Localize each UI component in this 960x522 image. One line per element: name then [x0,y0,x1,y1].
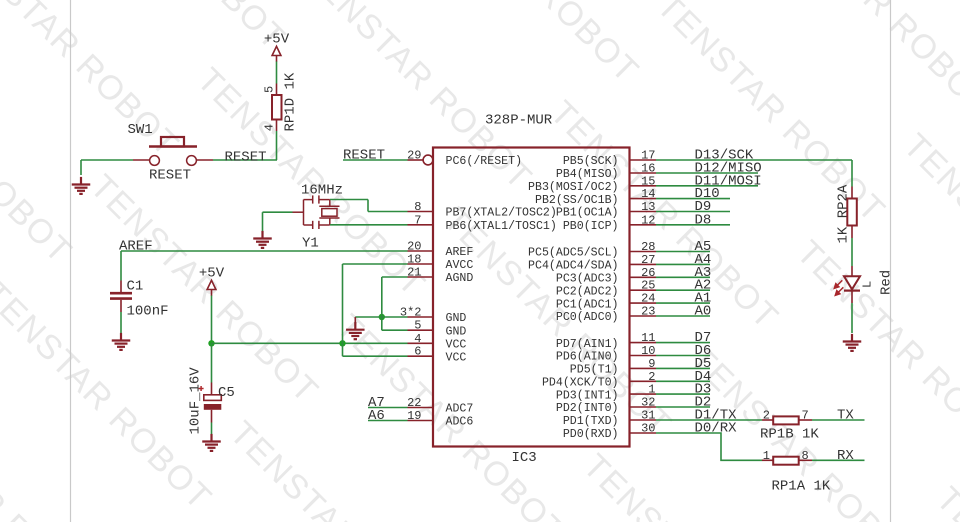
ground [202,434,221,451]
wire [656,367,710,369]
svg-text:PB7(XTAL2/TOSC2): PB7(XTAL2/TOSC2) [446,207,557,220]
svg-text:16MHz: 16MHz [301,183,343,199]
svg-text:PB4(MISO): PB4(MISO) [556,168,619,181]
svg-text:PB3(MOSI/OC2): PB3(MOSI/OC2) [528,181,618,194]
svg-text:28: 28 [641,240,655,254]
frame right border [890,0,892,522]
svg-text:10uF_16V: 10uF_16V [188,367,204,435]
IC3 pin 4 VCC [408,332,467,352]
svg-text:PC2(ADC2): PC2(ADC2) [556,285,619,298]
svg-text:ADC6: ADC6 [446,416,474,429]
ground [253,231,272,248]
+5V supply [199,266,225,296]
svg-text:ADC7: ADC7 [446,403,474,416]
wire [211,423,213,438]
svg-text:A6: A6 [368,408,385,424]
svg-text:1: 1 [648,383,655,397]
wire [656,355,710,357]
wire [656,315,710,317]
svg-text:7: 7 [802,409,809,423]
svg-text:PB6(XTAL1/TOSC1): PB6(XTAL1/TOSC1) [446,220,557,233]
svg-text:GND: GND [446,325,467,338]
wire [656,198,730,200]
svg-text:D8: D8 [695,212,712,228]
wire [120,251,122,281]
wire A7 net [368,407,408,409]
IC3 pin 21 AGND [407,266,473,286]
wire [656,211,730,213]
wire D0/RX net [656,433,762,460]
svg-text:29: 29 [407,149,421,163]
svg-text:Red: Red [879,270,895,295]
svg-text:19: 19 [407,409,421,423]
IC3 pin 23 PC0(ADC0) [556,305,656,325]
IC3 pin 31 PD1(TXD) [563,409,656,429]
switch SW1 [128,122,214,184]
svg-text:1K RP2A: 1K RP2A [835,184,851,243]
svg-text:PC3(ADC3): PC3(ADC3) [556,273,619,286]
wire [120,312,122,333]
svg-text:100nF: 100nF [127,304,169,320]
svg-text:20: 20 [407,240,421,254]
svg-text:RP1A 1K: RP1A 1K [772,479,831,495]
ground [72,177,91,194]
svg-text:RP1B 1K: RP1B 1K [760,427,819,443]
svg-text:6: 6 [414,345,421,359]
svg-text:PD6(AIN0): PD6(AIN0) [556,351,619,364]
wire [330,199,368,201]
svg-text:IC3: IC3 [512,450,537,466]
svg-text:17: 17 [641,149,655,163]
svg-text:11: 11 [641,331,655,345]
wire [80,160,82,175]
wire [330,224,408,226]
svg-text:24: 24 [641,292,655,306]
crystal/resonator Y1 16MHz [293,183,344,252]
svg-text:RX: RX [837,448,854,464]
ground [346,322,365,339]
svg-text:RESET: RESET [149,168,191,184]
IC3 pin 11 PD7(AIN1) [556,331,656,351]
wire [368,211,408,213]
svg-text:1: 1 [763,449,770,463]
resistor RP1B 1K [760,409,819,443]
svg-text:PC6(/RESET): PC6(/RESET) [446,155,523,168]
wire [211,343,213,382]
IC3 pin 15 PB3(MOSI/OC2) [528,174,656,194]
svg-text:D0/RX: D0/RX [695,421,738,437]
svg-text:TENSTAR ROBOT: TENSTAR ROBOT [649,0,892,230]
svg-text:RESET: RESET [225,150,267,166]
svg-text:27: 27 [641,253,655,267]
svg-text:22: 22 [407,396,421,410]
IC3 pin 7 PB6(XTAL1/TOSC1) [408,213,557,233]
svg-text:5: 5 [263,86,277,93]
wire [656,342,710,344]
svg-text:18: 18 [407,253,421,267]
svg-text:Y1: Y1 [302,236,319,252]
svg-text:8: 8 [802,449,809,463]
IC3 pin 1 PD3(INT1) [556,383,656,403]
svg-text:RP1D 1K: RP1D 1K [283,72,299,131]
wire [851,238,853,266]
svg-text:9: 9 [648,357,655,371]
wire [276,62,278,84]
svg-text:AVCC: AVCC [446,259,474,272]
svg-text:32: 32 [641,396,655,410]
wire +5V net [211,296,213,344]
wire RX net [812,459,865,461]
wire D1/TX net [656,419,762,421]
wire [656,276,710,278]
IC3 pin 10 PD6(AIN0) [556,344,656,364]
wire AREF net [121,250,408,252]
svg-text:21: 21 [407,266,421,280]
wire [656,251,710,253]
svg-text:TENSTAR ROBOT: TENSTAR ROBOT [929,480,960,522]
svg-text:PB5(SCK): PB5(SCK) [563,155,619,168]
wire [656,159,852,161]
resistor RP2A 1K [835,184,857,243]
svg-text:RESET: RESET [343,148,385,164]
wire RESET net [276,131,278,160]
wire [656,263,710,265]
svg-text:PC0(ADC0): PC0(ADC0) [556,311,619,324]
IC3 pin 2 PD4(XCK/T0) [542,370,656,390]
junction [379,314,385,320]
wire [262,212,264,231]
frame left border [70,0,72,522]
svg-text:SW1: SW1 [128,122,153,138]
svg-text:PD3(INT1): PD3(INT1) [556,389,619,402]
svg-text:5: 5 [414,319,421,333]
wire RESET net [81,159,133,161]
ground [843,334,862,351]
svg-text:PB0(ICP): PB0(ICP) [563,220,619,233]
svg-text:VCC: VCC [446,339,467,352]
IC3 pin 12 PB0(ICP) [563,213,656,233]
svg-text:TENSTAR ROBOT: TENSTAR ROBOT [0,274,219,517]
svg-text:328P-MUR: 328P-MUR [485,113,553,129]
IC3 pin 25 PC2(ADC2) [556,279,656,299]
svg-text:30: 30 [641,422,655,436]
+5V supply [264,32,290,62]
wire GND [355,316,407,318]
IC3 pin 9 PD5(T1) [570,357,656,377]
svg-text:PD2(INT0): PD2(INT0) [556,402,619,415]
svg-text:4: 4 [414,332,421,346]
wire RESET net [213,159,277,161]
svg-text:GND: GND [446,312,467,325]
svg-text:PB2(SS/OC1B): PB2(SS/OC1B) [535,194,619,207]
svg-text:PB1(OC1A): PB1(OC1A) [556,207,619,220]
capacitor C1 100nF [110,279,169,320]
capacitor C5 10uF 16V polarized [188,367,235,435]
IC3 pin 13 PB1(OC1A) [556,200,656,220]
wire [342,264,344,356]
svg-text:14: 14 [641,187,655,201]
svg-text:AGND: AGND [446,272,474,285]
junction [339,340,345,346]
IC3 pin 6 VCC [408,345,467,365]
svg-text:AREF: AREF [119,239,153,255]
svg-text:7: 7 [414,213,421,227]
svg-text:TX: TX [837,408,854,424]
svg-text:PD1(TXD): PD1(TXD) [563,415,619,428]
svg-text:TENSTAR ROBOT: TENSTAR ROBOT [0,0,186,164]
svg-text:C1: C1 [127,279,144,295]
resistor RP1A 1K [762,449,831,495]
wire [656,393,710,395]
svg-text:31: 31 [641,409,655,423]
wire [367,200,369,212]
wire VCC net [212,342,408,344]
svg-text:13: 13 [641,200,655,214]
wire [656,380,710,382]
wire [381,277,383,330]
svg-text:PD7(AIN1): PD7(AIN1) [556,338,619,351]
wire [656,289,710,291]
wire RESET net [343,159,408,161]
wire A6 net [368,420,408,422]
LED L Red [834,266,894,303]
IC3 pin 32 PD2(INT0) [556,396,656,416]
IC3 pin 29 PC6(/RESET) [407,149,522,169]
svg-text:TENSTAR ROBOT: TENSTAR ROBOT [83,168,326,411]
svg-text:PD4(XCK/T0): PD4(XCK/T0) [542,377,619,390]
IC3 pin 26 PC3(ADC3) [556,266,656,286]
IC3 pin 16 PB4(MISO) [556,162,656,182]
svg-text:A0: A0 [695,304,712,320]
svg-text:26: 26 [641,266,655,280]
wire [851,303,853,333]
svg-text:AREF: AREF [446,246,474,259]
junction [208,340,214,346]
IC3 pin 20 AREF [407,240,473,260]
IC3 pin 8 PB7(XTAL2/TOSC2) [408,200,557,220]
wire [656,302,710,304]
IC3 pin 17 PB5(SCK) [563,149,656,169]
IC3 pin 5 GND [408,319,467,339]
svg-text:PC5(ADC5/SCL): PC5(ADC5/SCL) [528,247,618,260]
svg-text:PC4(ADC4/SDA): PC4(ADC4/SDA) [528,260,618,273]
wire [851,160,853,187]
wire [263,211,293,213]
wire TX net [812,419,865,421]
svg-text:PD0(RXD): PD0(RXD) [563,428,619,441]
IC3 pin 24 PC1(ADC1) [556,292,656,312]
svg-text:10: 10 [641,344,655,358]
IC3 pin 3*2 GND [400,306,467,326]
wire [656,172,758,174]
svg-text:PC1(ADC1): PC1(ADC1) [556,298,619,311]
resistor RP1D 1K [263,72,299,131]
ground [354,317,356,329]
svg-text:PD5(T1): PD5(T1) [570,364,619,377]
IC3 pin 30 PD0(RXD) [563,422,656,442]
wire [656,185,758,187]
wire [656,406,710,408]
svg-text:25: 25 [641,279,655,293]
svg-text:4: 4 [263,124,277,131]
svg-text:2: 2 [763,409,770,423]
IC IC3 ATmega328P body [433,148,630,447]
wire VCC [343,355,408,357]
svg-text:C5: C5 [218,385,235,401]
ground [112,333,131,350]
IC3 pin 27 PC4(ADC4/SDA) [528,253,656,273]
IC3 pin 22 ADC7 [407,396,473,416]
IC3 pin 19 ADC6 [407,409,473,429]
svg-text:8: 8 [414,200,421,214]
wire AGND [382,276,408,278]
wire GND [382,329,408,331]
svg-text:L: L [861,281,875,288]
svg-text:23: 23 [641,305,655,319]
IC3 pin 28 PC5(ADC5/SCL) [528,240,656,260]
wire AVCC [343,263,408,265]
svg-text:VCC: VCC [446,351,467,364]
IC3 pin 18 AVCC [407,253,473,273]
svg-text:12: 12 [641,213,655,227]
IC3 pin 14 PB2(SS/OC1B) [535,187,656,207]
wire [656,224,730,226]
